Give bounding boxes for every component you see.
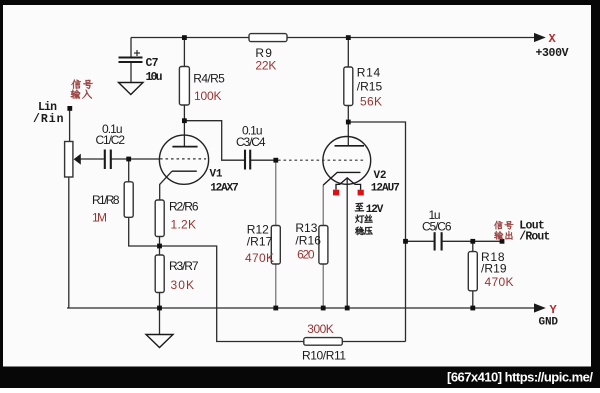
label signal output (494, 221, 503, 230)
svg-text:R3/R7: R3/R7 (169, 259, 199, 273)
svg-text:V2: V2 (374, 170, 387, 182)
wire V2 plate branch to output (348, 122, 405, 241)
wire R18/R19 bottom lead (472, 291, 474, 308)
svg-text:30K: 30K (171, 278, 195, 292)
wire C1/C2 to grid node A (111, 158, 131, 160)
wire R14/R15 bottom lead to V2 plate node (347, 106, 349, 146)
svg-text:22K: 22K (255, 59, 276, 73)
resistor R2/R6 1.2K (155, 200, 164, 237)
svg-text:R14: R14 (357, 66, 381, 80)
wire wiper arrow to C1/C2 (81, 158, 104, 160)
svg-text:Y: Y (550, 303, 558, 317)
wire R2/R6 bottom lead to node C (159, 237, 161, 247)
node junction R12 on rail (273, 306, 278, 311)
node junction R3 on rail (157, 306, 162, 311)
V2 heater filament (336, 178, 361, 190)
input terminal Lin (67, 106, 72, 111)
wire potentiometer bottom to ground rail (68, 177, 70, 308)
svg-text:V1: V1 (210, 169, 223, 181)
capacitor C3/C4 0.1u (245, 150, 250, 170)
wire C3/C4 right to node B (251, 159, 276, 161)
capacitor C5/C6 1u (435, 232, 442, 250)
svg-text:/R16: /R16 (295, 233, 321, 247)
tube V1 12AX7 (159, 135, 208, 184)
wire R1/R8 bottom lead (128, 217, 130, 246)
ground (main rail) (146, 335, 173, 348)
wire R3/R7 bottom lead (159, 293, 161, 309)
capacitor C1/C2 0.1u (105, 150, 111, 170)
wire V1 cathode lead (160, 171, 172, 200)
svg-text:/Rout: /Rout (519, 231, 550, 244)
resistor R14/R15 56K (344, 67, 353, 106)
resistor R3/R7 30K (155, 255, 164, 293)
node junction heater tap on rail (345, 306, 350, 311)
wire V1 plate branch to C3/C4 (184, 121, 244, 161)
node X junction (R4 rail) (182, 35, 187, 40)
resistor R9 22K (249, 34, 287, 42)
svg-text:+300V: +300V (536, 47, 569, 60)
wire R3/R7 top lead (159, 246, 161, 255)
border frame right (591, 0, 600, 388)
svg-text:C7: C7 (146, 57, 159, 70)
svg-text:R1/R8: R1/R8 (92, 193, 120, 207)
svg-text:C5/C6: C5/C6 (422, 219, 452, 233)
wire feedback left segment (129, 246, 304, 342)
resistor R12/R17 470K (271, 226, 280, 265)
wire C5/C6 left lead (406, 240, 434, 242)
svg-text:X: X (549, 32, 557, 46)
svg-text:R4/R5: R4/R5 (193, 72, 225, 86)
resistor R10/R11 300K (feedback) (304, 338, 343, 346)
wire R18/R19 top lead (472, 241, 474, 251)
wire R4/R5 bottom lead to V1 plate (183, 105, 185, 147)
wire R4/R5 top lead (183, 38, 185, 67)
ground (C7) (119, 83, 144, 95)
resistor R18/R19 470K (468, 252, 477, 291)
node A junction (grid of V1) (126, 157, 131, 162)
svg-text:/Rin: /Rin (33, 113, 64, 126)
svg-text:GND: GND (539, 316, 559, 328)
wire ground rail (67, 307, 535, 309)
svg-text:620: 620 (297, 248, 315, 262)
svg-text:100K: 100K (194, 89, 222, 103)
svg-text:300K: 300K (307, 322, 334, 336)
heater pin F1 (333, 190, 339, 196)
resistor R1/R8 1M (124, 182, 133, 218)
svg-text:C1/C2: C1/C2 (96, 133, 126, 147)
svg-text:12AX7: 12AX7 (210, 183, 239, 195)
wire node B down to R12/R17 (275, 160, 277, 225)
node junction R18 top (470, 239, 475, 244)
resistor R13/R16 620 (319, 226, 328, 265)
svg-text:R10/R11: R10/R11 (302, 348, 346, 362)
svg-text:/R17: /R17 (247, 235, 273, 249)
node C junction (cathode divider) (157, 244, 162, 249)
wire output node down to feedback (405, 241, 407, 341)
wire input terminal to potentiometer (69, 108, 71, 141)
wire R12/R17 bottom lead (275, 264, 277, 308)
svg-text:1M: 1M (92, 211, 107, 225)
bottom watermark bar (0, 367, 600, 389)
svg-text:1.2K: 1.2K (171, 218, 197, 232)
svg-text:10u: 10u (146, 71, 163, 84)
svg-text:C3/C4: C3/C4 (236, 135, 266, 149)
node junction R18 on rail (470, 306, 475, 311)
svg-text:R2/R6: R2/R6 (169, 200, 199, 214)
svg-text:/R19: /R19 (481, 262, 507, 276)
svg-text:470K: 470K (245, 251, 274, 265)
terminal Y arrow GND (534, 303, 546, 312)
wire feedback right segment (342, 341, 405, 343)
wire C7 top lead (130, 38, 132, 58)
wire C5/C6 right lead to output terminal (442, 240, 502, 242)
label signal input (71, 79, 81, 88)
node junction V1 plate (182, 118, 187, 123)
terminal X arrow +300V (534, 33, 546, 42)
border frame top (0, 0, 600, 5)
tube V2 12AU7 (323, 137, 371, 185)
wire +300V rail (131, 37, 535, 39)
wire R13/R16 bottom lead (322, 264, 324, 308)
svg-text:/R15: /R15 (357, 80, 383, 94)
wire C7 bottom lead to ground (130, 63, 132, 83)
node B junction (C3/C4 to V2 grid) (273, 158, 278, 163)
output terminal Lout (500, 239, 505, 244)
node junction (R14 rail) (346, 35, 351, 40)
svg-text:470K: 470K (485, 275, 514, 289)
wire node A to V1 grid (129, 158, 160, 160)
wire R1/R8 top lead (128, 160, 130, 182)
resistor R4/R5 100K (179, 67, 189, 106)
wire V2 heater centre tap to ground rail (346, 179, 348, 309)
wire R14/R15 top lead (347, 38, 349, 68)
border frame left (0, 0, 3, 388)
svg-text:[667x410] https://upic.me/: [667x410] https://upic.me/ (447, 370, 593, 385)
svg-text:12AU7: 12AU7 (371, 183, 400, 195)
node junction C5 left (403, 239, 408, 244)
wire V2 cathode lead to R13/R16 (322, 185, 324, 225)
capacitor C7 (119, 58, 143, 63)
svg-text:12V: 12V (366, 204, 384, 216)
label to 12V filament supply (355, 203, 364, 212)
wire ground symbol lead (159, 308, 161, 335)
heater pin F2 (358, 190, 364, 196)
node junction R13 on rail (321, 306, 326, 311)
svg-text:56K: 56K (360, 95, 382, 109)
potentiometer VR (input level) (65, 142, 73, 178)
node junction V2 plate (346, 120, 351, 125)
